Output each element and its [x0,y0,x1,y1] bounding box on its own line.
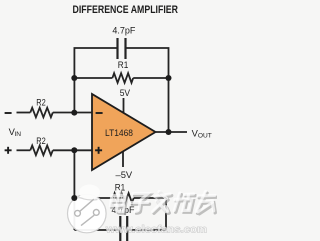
capacitor C1 plate left [116,38,118,59]
capacitor C2 plate left (cropped at image bottom) [119,216,121,241]
wire: non-inverting node down to bottom network [73,150,75,198]
node: R1 rail right junction [166,75,172,81]
node: output junction [166,129,172,135]
resistor R1 bottom zigzag [113,193,134,203]
wire: bottom left vertical [73,198,75,230]
wire: -5V supply stub [122,152,124,168]
resistor R2 top zigzag [30,108,53,118]
capacitor C1 plate right [124,38,126,59]
svg-text:R2: R2 [36,135,46,146]
node: bottom network junction [71,195,77,201]
svg-text:IN: IN [14,131,21,138]
input plus sign [5,149,12,151]
wire: feedback left vertical + top rail to capacitor [74,48,116,113]
wire: top rail from capacitor to right vertical down to output [127,48,169,132]
node: inverting input junction [71,110,77,116]
input minus sign [5,112,12,114]
watermark: Chinese characters (stylized embossed strokes) [109,191,218,213]
wire: output lead [156,131,187,133]
wire: bottom R1 rail right lead [134,197,166,199]
svg-text:OUT: OUT [198,132,212,139]
svg-text:–5V: –5V [116,169,133,180]
wire: 5V supply stub [123,98,125,113]
resistor R2 bottom zigzag [30,146,53,156]
wire: bottom right vertical [165,198,167,230]
wire: R1 feedback rail left lead [74,77,112,79]
capacitor C2 plate right (cropped at image bottom) [126,216,128,241]
op-amp inverting input marker [96,112,103,114]
wire: bottom R1 rail left lead [74,197,113,199]
svg-text:www.elecfans.com: www.elecfans.com [105,224,207,235]
wire: non-inverting input lead [17,149,31,151]
svg-text:4.7pF: 4.7pF [112,25,135,36]
watermark: elecfans circular logo [68,185,107,233]
svg-text:5V: 5V [120,87,131,98]
resistor R1 feedback zigzag [112,73,133,83]
node: R1 rail left junction [71,75,77,81]
wire: inverting input lead [17,112,31,114]
wire: bottom capacitor branch right [128,229,166,231]
svg-text:LT1468: LT1468 [105,127,133,138]
svg-text:R2: R2 [36,97,46,108]
wire: R1 feedback rail right lead [133,77,168,79]
svg-text:DIFFERENCE AMPLIFIER: DIFFERENCE AMPLIFIER [73,4,179,16]
op-amp non-inverting input marker [95,149,102,151]
svg-text:R1: R1 [118,59,129,70]
wire: bottom capacitor branch left [74,229,119,231]
op-amp U1 LT1468 [92,94,156,170]
node: non-inverting input junction [71,147,77,153]
